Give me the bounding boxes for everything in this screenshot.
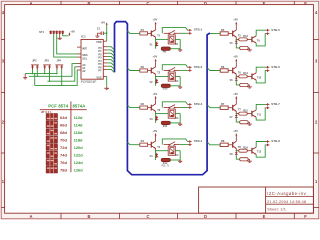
- svg-text:JP4: JP4: [57, 59, 62, 62]
- svg-text:+5V: +5V: [153, 92, 158, 96]
- wire T6 collector to +5V: [235, 61, 237, 67]
- wire T5 collector to +5V: [235, 24, 237, 30]
- wire T11 emitter to STB-7 pin2: [256, 108, 266, 120]
- diode V8: [230, 152, 238, 156]
- relay K4 contact: [164, 142, 180, 147]
- ground for IC1 VSS: [104, 87, 109, 90]
- svg-text:B: B: [88, 1, 91, 6]
- svg-text:+5V: +5V: [153, 129, 158, 133]
- svg-text:122d: 122d: [74, 153, 84, 158]
- resistor R14: [236, 72, 252, 78]
- resistor R10 (coil series): [161, 84, 180, 91]
- wires P0-P7 to bus: [107, 47, 114, 73]
- wire bus tap P5 to R6: [207, 68, 220, 71]
- resistor below diode right cell 8: [240, 158, 249, 161]
- bus P[0..7]: [115, 22, 210, 175]
- svg-text:STB-6: STB-6: [271, 65, 280, 69]
- wire net A0: [29, 64, 77, 77]
- connector STB-5: [266, 28, 280, 35]
- svg-text:PCF 8574: PCF 8574: [48, 103, 69, 108]
- svg-text:B: B: [88, 214, 91, 219]
- wire node down to R10: [155, 77, 157, 86]
- table row 4 jumper icon: [46, 136, 57, 143]
- resistor R4: [140, 139, 152, 146]
- svg-text:112d: 112d: [74, 115, 83, 120]
- transistor T4: [151, 141, 160, 149]
- connector STB-1: [188, 28, 203, 35]
- resistor R9 (coil series): [161, 47, 180, 54]
- wire ST1 pin3 to SDA: [57, 34, 77, 54]
- diode V4: [150, 153, 159, 158]
- ground right cell 6: [248, 85, 252, 88]
- +5V supply for ST1: [68, 29, 75, 36]
- wire T3 collector to +5V: [155, 98, 157, 104]
- +5V supply left cell 4: [153, 129, 158, 136]
- svg-text:SCL: SCL: [82, 56, 88, 60]
- wire JP3 right leg: [49, 70, 51, 82]
- svg-text:R1: R1: [141, 28, 145, 32]
- relay K2 coil box: [168, 72, 179, 83]
- op IC1 PCF8574P box: [81, 40, 103, 80]
- table row 5 jumper icon: [46, 144, 57, 151]
- wire relay K2 right pin: [175, 76, 180, 78]
- wire T2 collector to +5V: [155, 61, 157, 67]
- wire T1 emitter to node: [155, 37, 157, 39]
- +5V supply for IC1: [100, 20, 107, 24]
- svg-text:E: E: [263, 214, 266, 219]
- wire T10 collector to STB-6 pin1: [256, 67, 266, 73]
- wire VDD net: [106, 25, 108, 41]
- ground right cell 7: [248, 122, 252, 125]
- wire to STB-4 pin2: [179, 144, 187, 146]
- resistor R15: [236, 109, 252, 115]
- svg-text:P7: P7: [98, 69, 102, 73]
- +5V supply right cell 8: [233, 129, 238, 136]
- capacitor C1: [97, 26, 107, 35]
- transistor T2: [151, 67, 160, 75]
- frame row ticks right: [313, 39, 318, 41]
- resistor R13: [236, 35, 252, 41]
- junction A2 drop/gnd rail: [34, 73, 35, 74]
- ground right cell 8: [248, 159, 252, 162]
- svg-text:T10: T10: [257, 76, 262, 79]
- IC1 left pin labels: [82, 46, 88, 73]
- svg-text:VDD: VDD: [96, 40, 102, 44]
- junction JP4/A2: [61, 85, 62, 86]
- svg-text:114d: 114d: [74, 122, 83, 127]
- wire net A1: [47, 67, 77, 81]
- svg-text:R11: R11: [163, 125, 168, 128]
- wire T4 emitter to node: [155, 148, 157, 150]
- title block outline: [199, 187, 314, 213]
- diode V2: [150, 79, 159, 84]
- junction node T3/K3: [155, 113, 156, 114]
- svg-text:66d: 66d: [60, 122, 67, 127]
- wire node to diode V5: [235, 39, 237, 41]
- transistor T5: [233, 30, 242, 38]
- junction JP2/gnd rail: [32, 73, 33, 74]
- wire to STB-2 pin2: [179, 69, 187, 71]
- svg-text:R3: R3: [141, 102, 145, 106]
- svg-text:+5V: +5V: [233, 18, 238, 22]
- svg-text:E: E: [263, 1, 266, 6]
- wire relay K1 right pin: [175, 38, 180, 40]
- IC1 right pin labels: [96, 40, 102, 79]
- svg-text:+5V: +5V: [233, 129, 238, 133]
- svg-text:IC1: IC1: [81, 34, 86, 38]
- svg-text:R5: R5: [221, 28, 225, 32]
- wire node to relay coil K1: [156, 38, 169, 40]
- wire T11 collector to STB-7 pin1: [256, 104, 266, 110]
- svg-text:STB-1: STB-1: [194, 28, 203, 32]
- wire relay K3 right pin: [175, 113, 180, 115]
- wire T5 emitter to node: [235, 37, 237, 39]
- +5V supply right cell 6: [233, 55, 238, 62]
- jumper JP2: [31, 59, 39, 69]
- +5V supply right cell 5: [233, 18, 238, 25]
- wire diode to R: [236, 43, 239, 48]
- junction node T1/K1: [155, 39, 156, 40]
- wire T12 collector to STB-8 pin1: [256, 142, 266, 148]
- wire T3 emitter to node: [155, 111, 157, 113]
- transistor T8: [233, 141, 242, 149]
- wire bus tap P2 to R3: [127, 105, 139, 108]
- resistor R6: [220, 65, 233, 72]
- wire bus tap P6 to R7: [207, 105, 220, 108]
- svg-text:118d: 118d: [74, 138, 83, 143]
- svg-text:A: A: [30, 214, 33, 219]
- relay K4 coil box: [168, 146, 179, 157]
- svg-text:Sheet: 1/1: Sheet: 1/1: [267, 208, 286, 212]
- svg-text:C: C: [147, 1, 150, 6]
- wire T8 collector to +5V: [235, 136, 237, 142]
- ground left cell 1: [178, 49, 182, 52]
- jumper JP3: [43, 59, 51, 69]
- wire VSS to ground: [106, 76, 108, 86]
- wire node to diode V8: [235, 151, 237, 153]
- wire gnd rail: [25, 73, 56, 75]
- svg-text:+5V: +5V: [100, 20, 105, 24]
- wire JP4 right leg: [61, 70, 63, 86]
- title block text box: [265, 187, 267, 213]
- svg-text:+5V: +5V: [70, 29, 75, 33]
- resistor below diode right cell 7: [240, 121, 249, 124]
- ground left cell 4: [178, 160, 182, 163]
- svg-text:P[0..7]: P[0..7]: [162, 165, 170, 168]
- svg-text:JP3: JP3: [44, 59, 49, 62]
- svg-text:R12: R12: [163, 162, 168, 165]
- wire node to relay coil K2: [156, 76, 169, 78]
- wire contact to STB-4 pin1: [162, 139, 187, 145]
- svg-text:124d: 124d: [74, 160, 84, 165]
- resistor R16: [236, 146, 252, 152]
- +5V supply left cell 3: [153, 92, 158, 99]
- wire relay right down: [179, 114, 181, 123]
- svg-text:T12: T12: [257, 151, 262, 154]
- svg-text:VSS: VSS: [96, 75, 101, 79]
- junction VDD/C1: [106, 33, 107, 34]
- +5V supply right cell 7: [233, 92, 238, 99]
- junction node T4/K4: [155, 150, 156, 151]
- svg-text:STB-3: STB-3: [194, 102, 203, 106]
- diode V7: [230, 115, 238, 119]
- svg-text:C: C: [147, 214, 150, 219]
- svg-text:74d: 74d: [60, 153, 67, 158]
- svg-text:INT!: INT!: [82, 46, 87, 50]
- table row 1 jumper icon: [46, 114, 57, 121]
- resistor R11 (coil series): [161, 121, 180, 128]
- svg-text:STB-7: STB-7: [271, 102, 280, 106]
- svg-text:D: D: [204, 1, 207, 6]
- wire node down to R11: [155, 114, 157, 123]
- junction node T2/K2: [155, 76, 156, 77]
- table row 7 jumper icon: [46, 159, 57, 166]
- wire to STB-3 pin2: [179, 107, 187, 109]
- junction node right cell 5: [236, 39, 237, 40]
- wire relay right down: [179, 39, 181, 48]
- resistor below diode right cell 5: [240, 46, 249, 49]
- svg-text:STB-8: STB-8: [271, 139, 280, 143]
- wire T9 emitter to STB-5 pin2: [256, 34, 266, 46]
- wire T7 collector to +5V: [235, 99, 237, 105]
- connector STB-2: [188, 65, 203, 72]
- wire T1 collector to +5V: [155, 24, 157, 30]
- wire JP2 right leg: [36, 70, 38, 77]
- wire T7 emitter to node: [235, 111, 237, 113]
- transistor T6: [233, 67, 242, 75]
- connector STB-6: [266, 65, 280, 72]
- junction node right cell 7: [236, 113, 237, 114]
- svg-text:126d: 126d: [74, 168, 84, 173]
- wire node to relay coil K3: [156, 113, 169, 115]
- wire ST1 pin5 to +5V: [63, 34, 69, 36]
- relay K2 contact: [164, 68, 180, 73]
- wire T4 collector to +5V: [155, 136, 157, 142]
- connector STB-4: [188, 139, 203, 146]
- svg-text:+5V: +5V: [233, 55, 238, 59]
- wire diode to R: [236, 118, 239, 123]
- connector ST1: [39, 30, 64, 34]
- svg-text:72d: 72d: [60, 145, 67, 150]
- +5V supply left cell 2: [153, 55, 158, 62]
- table row 3 jumper icon: [46, 129, 57, 136]
- ground for ST1 pin4: [58, 34, 62, 40]
- svg-text:21.02.2004 14:55:48: 21.02.2004 14:55:48: [267, 200, 306, 204]
- junction JP2/A0: [37, 76, 38, 77]
- junction node right cell 6: [236, 76, 237, 77]
- table row 6 jumper icon: [46, 151, 57, 158]
- svg-text:ST1: ST1: [39, 30, 44, 34]
- svg-text:120d: 120d: [74, 145, 84, 150]
- junction JP3/A1: [49, 81, 50, 82]
- wire ST1 pin2 to SDA/SCL: [54, 34, 77, 57]
- svg-text:C1: C1: [97, 26, 101, 30]
- transistor T11: [252, 110, 262, 117]
- wire JP3 left leg to gnd rail: [44, 70, 46, 74]
- jumper JP4: [55, 59, 63, 69]
- wire contact to STB-3 pin1: [162, 102, 187, 108]
- wire diode to R: [236, 80, 239, 85]
- svg-text:+5V: +5V: [153, 18, 158, 22]
- table separator lines: [70, 101, 72, 172]
- resistor R8: [220, 139, 233, 146]
- wire bus tap P1 to R2: [127, 68, 139, 71]
- wire T6 emitter to node: [235, 74, 237, 76]
- svg-text:R8: R8: [221, 139, 225, 143]
- svg-text:T11: T11: [257, 114, 262, 117]
- table row 2 jumper icon: [46, 121, 57, 128]
- wire T2 emitter to node: [155, 74, 157, 76]
- relay K1 contact: [164, 30, 180, 35]
- resistor R1: [140, 28, 152, 35]
- svg-text:STB-5: STB-5: [271, 28, 280, 32]
- transistor T10: [252, 73, 262, 80]
- junction JP4/gnd rail: [56, 73, 57, 74]
- svg-text:76d: 76d: [60, 160, 67, 165]
- wire line A2 drop: [34, 74, 36, 86]
- wire node to relay coil K4: [156, 150, 169, 152]
- wire JP4 left leg to gnd rail: [56, 70, 58, 74]
- ground right cell 5: [248, 48, 252, 51]
- wire bus tap P7 to R8: [207, 142, 220, 145]
- svg-text:JP2: JP2: [32, 59, 37, 62]
- transistor T9: [252, 36, 260, 43]
- svg-text:STB-2: STB-2: [194, 65, 203, 69]
- wire bus tap P3 to R4: [127, 142, 139, 145]
- wire JP2 left leg to gnd rail: [32, 70, 34, 74]
- svg-text:64d: 64d: [60, 115, 67, 120]
- resistor R2: [140, 65, 152, 72]
- wire bus end to R5: [210, 33, 220, 35]
- svg-text:68d: 68d: [60, 130, 67, 135]
- wire node down to R9: [155, 39, 157, 48]
- svg-text:8574A: 8574A: [73, 103, 86, 108]
- svg-text:+5V: +5V: [153, 55, 158, 59]
- relay K3 coil box: [168, 109, 179, 120]
- wire T9 collector to STB-5 pin1: [256, 30, 266, 36]
- connector STB-3: [188, 102, 203, 109]
- transistor T1: [151, 30, 160, 38]
- svg-text:R2: R2: [141, 65, 145, 69]
- wire relay right down: [179, 77, 181, 86]
- relay K1 coil box: [168, 35, 179, 46]
- resistor R12 (coil series): [161, 158, 180, 165]
- svg-text:R10: R10: [163, 88, 168, 91]
- wire T10 emitter to STB-6 pin2: [256, 71, 266, 83]
- +5V supply left cell 1: [153, 18, 158, 25]
- diode V5: [230, 41, 238, 45]
- svg-text:A: A: [30, 1, 33, 6]
- transistor T7: [233, 104, 242, 112]
- IC1 left pin stubs: [77, 47, 81, 70]
- svg-text:STB-4: STB-4: [194, 139, 203, 143]
- ground left cell 3: [178, 123, 182, 126]
- resistor R7: [220, 102, 233, 109]
- ground left cell 2: [178, 86, 182, 89]
- IC1 right pin stubs P0-P7, VDD, VSS: [103, 41, 107, 76]
- wire node to diode V7: [235, 113, 237, 115]
- junction JP3/gnd rail: [44, 73, 45, 74]
- svg-text:+5V: +5V: [233, 92, 238, 96]
- wire to STB-1 pin2: [179, 32, 187, 34]
- transistor T3: [151, 104, 160, 112]
- frame column ticks top: [60, 1, 62, 4]
- svg-text:PCF8574P: PCF8574P: [81, 80, 97, 84]
- ground for C1: [95, 36, 99, 37]
- wire relay K4 right pin: [175, 150, 180, 152]
- diode V1: [150, 42, 159, 47]
- wire relay right down: [179, 151, 181, 160]
- svg-text:70d: 70d: [60, 138, 67, 143]
- svg-text:116d: 116d: [74, 130, 83, 135]
- junction node right cell 8: [236, 150, 237, 151]
- wire bus tap P0 to R1: [127, 31, 139, 34]
- wire contact to STB-2 pin1: [162, 65, 187, 71]
- wire diode to R: [236, 155, 239, 160]
- relay K3 contact: [164, 105, 180, 110]
- resistor R3: [140, 102, 152, 109]
- wire T8 emitter to node: [235, 149, 237, 151]
- wire net A2: [35, 70, 77, 85]
- frame column ticks bottom: [60, 213, 62, 219]
- diode V3: [150, 116, 159, 121]
- wire contact to STB-1 pin1: [162, 28, 187, 34]
- connector STB-7: [266, 102, 280, 109]
- diode V6: [230, 78, 238, 82]
- svg-text:D: D: [204, 214, 207, 219]
- transistor T12: [252, 147, 262, 154]
- table row 8 jumper icon: [46, 166, 57, 173]
- svg-text:A2: A2: [82, 69, 86, 73]
- svg-text:78d: 78d: [60, 168, 67, 173]
- wire node down to R12: [155, 151, 157, 160]
- wire node to diode V6: [235, 76, 237, 78]
- svg-text:R7: R7: [221, 102, 225, 106]
- resistor R5: [220, 28, 233, 35]
- connector STB-8: [266, 139, 280, 146]
- wire T12 emitter to STB-8 pin2: [256, 145, 266, 157]
- ground for jumpers: [23, 74, 27, 79]
- svg-text:R4: R4: [141, 139, 145, 143]
- svg-text:I2C-Ausgabe-inv: I2C-Ausgabe-inv: [267, 191, 306, 196]
- frame row ticks left: [1, 39, 4, 41]
- svg-text:R6: R6: [221, 65, 225, 69]
- resistor below diode right cell 6: [240, 83, 249, 86]
